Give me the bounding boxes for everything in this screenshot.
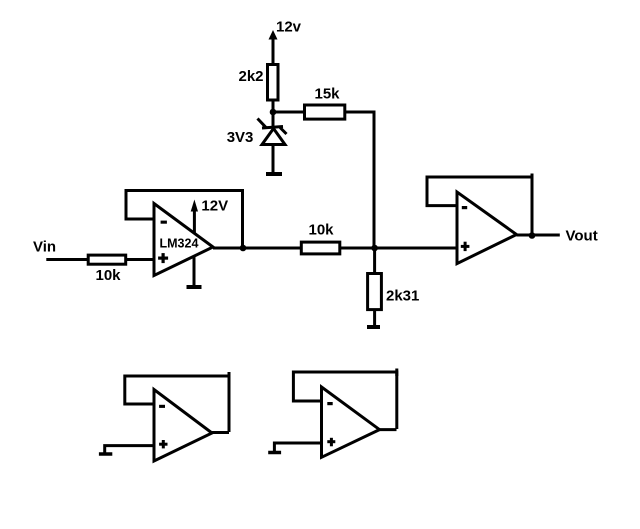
svg-text:3V3: 3V3 (227, 129, 254, 146)
svg-text:10k: 10k (96, 267, 122, 284)
svg-text:12v: 12v (276, 19, 302, 36)
svg-text:12V: 12V (201, 198, 228, 215)
svg-text:2k2: 2k2 (239, 68, 264, 85)
svg-text:2k31: 2k31 (386, 288, 419, 305)
svg-text:10k: 10k (309, 221, 335, 238)
svg-text:Vin: Vin (33, 239, 56, 256)
svg-text:15k: 15k (315, 86, 341, 103)
svg-text:Vout: Vout (566, 227, 598, 244)
svg-text:LM324: LM324 (160, 237, 199, 251)
